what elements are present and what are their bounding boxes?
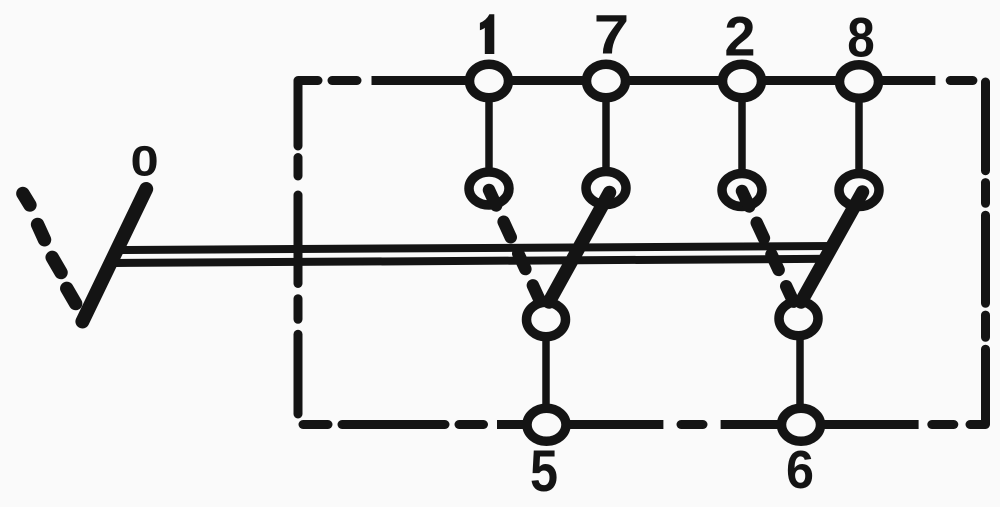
contact bridge B (pole to terminal 8) — [801, 192, 863, 302]
pole contact B — [779, 301, 818, 335]
fixed contact under terminal 8 — [839, 174, 879, 207]
actuator bar lower line — [116, 259, 829, 263]
svg-text:7: 7 — [594, 3, 630, 66]
terminal 6 — [782, 408, 821, 441]
lever (position 0) — [82, 189, 146, 322]
svg-text:2: 2 — [724, 5, 755, 68]
contact bridge A (pole to terminal 7) — [549, 193, 610, 303]
terminal 2 — [723, 64, 762, 98]
wire pole A to terminal 5 — [542, 320, 550, 425]
terminal 5 — [527, 408, 566, 441]
switch body right edge (dash-dot) — [970, 82, 986, 425]
svg-text:6: 6 — [786, 440, 814, 500]
terminal 8 — [840, 65, 879, 99]
lever alternate position (dashed) — [23, 194, 76, 304]
fixed contact under terminal 1 — [469, 172, 509, 205]
fixed contact under terminal 7 — [586, 172, 626, 205]
alternate contact position B (dashed) — [742, 191, 794, 303]
fixed contact under terminal 2 — [722, 174, 762, 207]
terminal 7 — [587, 64, 626, 98]
terminal 1 — [470, 64, 509, 98]
actuator bar upper line — [118, 246, 834, 250]
label 1 — [480, 14, 494, 54]
pole contact A — [527, 302, 566, 336]
svg-text:5: 5 — [530, 439, 558, 504]
wire terminal 7 to fixed contact — [602, 81, 610, 189]
switch body left edge (dash-dot) — [294, 158, 303, 415]
wire terminal 2 to fixed contact — [738, 81, 746, 190]
svg-text:0: 0 — [131, 138, 159, 186]
alternate contact position A (dashed) — [489, 190, 541, 303]
wire pole B to terminal 6 — [796, 319, 804, 425]
wire terminal 8 to fixed contact — [855, 81, 863, 190]
switch body bottom edge (dash-dot) — [303, 420, 954, 429]
wire terminal 1 to fixed contact — [485, 81, 493, 189]
switch body top edge (dash-dot) — [298, 81, 973, 147]
svg-text:8: 8 — [847, 6, 875, 69]
